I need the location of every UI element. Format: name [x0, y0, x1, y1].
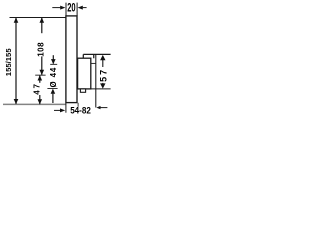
dim O44 bottom tail: [47, 88, 57, 90]
dim 54-82 leader left: [54, 109, 60, 111]
svg-text:155/155: 155/155: [4, 48, 13, 77]
plate (side view): [66, 16, 77, 103]
svg-text:20: 20: [67, 1, 76, 15]
20-dim extension lines: [65, 3, 67, 16]
dim 20 leader left: [52, 7, 60, 9]
top extension line: [10, 17, 66, 19]
step top + dim 57 ext top (continuous): [83, 53, 110, 55]
stub below plate right: [77, 103, 79, 107]
svg-text:47: 47: [33, 82, 42, 95]
dim 54-82 arrow right: [96, 106, 100, 109]
dim 57 ext bottom: [91, 88, 111, 90]
dim O44 top tail: [52, 55, 54, 63]
svg-text:54-82: 54-82: [70, 105, 91, 115]
knob top step: [83, 54, 93, 58]
knob bottom nub: [80, 89, 85, 92]
54-82 right extension line: [95, 54, 97, 107]
dim 47 line: [39, 76, 41, 83]
svg-text:108: 108: [36, 42, 45, 57]
junction tick 108/47: [35, 74, 45, 76]
knob mid line to ext: [91, 62, 96, 64]
dim 108 line: [41, 18, 43, 33]
dim 20 arrow right: [78, 6, 83, 10]
plate bottom extension: [65, 103, 67, 113]
knob body: [78, 58, 91, 89]
svg-text:57: 57: [98, 68, 108, 82]
wall line: [3, 103, 66, 105]
dim 57 line: [102, 60, 104, 67]
dim 155/155 line: [15, 18, 17, 104]
svg-text:Ø 44: Ø 44: [49, 67, 58, 88]
